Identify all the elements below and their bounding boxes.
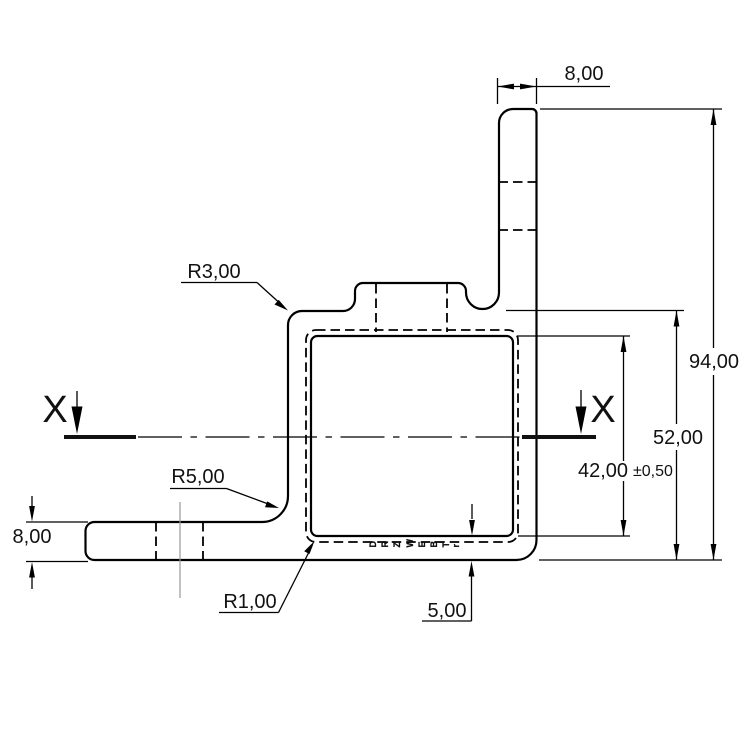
- dimension 5,00 bottom: [422, 504, 475, 622]
- svg-text:X: X: [590, 389, 615, 431]
- svg-text:R: R: [380, 541, 390, 548]
- dimension 94,00 right: [539, 109, 739, 560]
- dimension 52,00 right: [506, 311, 703, 561]
- svg-text:R3,00: R3,00: [187, 261, 240, 283]
- square hole: [311, 336, 513, 536]
- hidden line arm lower: [499, 229, 538, 231]
- svg-text:W: W: [405, 539, 415, 548]
- svg-text:±0,50: ±0,50: [633, 463, 673, 480]
- svg-text:8,00: 8,00: [565, 63, 604, 85]
- svg-text:B: B: [429, 541, 439, 548]
- leader R5,00: [170, 466, 279, 508]
- svg-text:52,00: 52,00: [653, 427, 703, 449]
- hidden line bump left: [375, 284, 377, 332]
- svg-text:T: T: [441, 542, 451, 548]
- leader R1,00: [219, 541, 315, 613]
- marking glyphs on hidden line: [368, 539, 461, 548]
- svg-text:Z: Z: [392, 542, 402, 548]
- svg-text:5,00: 5,00: [428, 600, 467, 622]
- hidden line foot left: [155, 522, 157, 560]
- dimension 8,00 top: [498, 63, 611, 104]
- section line right: [522, 435, 596, 439]
- hidden line arm upper: [499, 181, 538, 183]
- hidden line foot right: [202, 522, 204, 560]
- svg-text:R5,00: R5,00: [171, 466, 224, 488]
- svg-text:8,00: 8,00: [13, 526, 52, 548]
- svg-text:94,00: 94,00: [689, 351, 739, 373]
- section arrow left: [72, 391, 83, 434]
- section line left: [64, 435, 136, 439]
- svg-text:D: D: [368, 541, 378, 548]
- profile outline: [86, 109, 537, 560]
- dimension 42,00 ±0,50: [518, 336, 673, 536]
- section arrow right: [576, 390, 587, 434]
- hidden line bump right: [446, 284, 448, 332]
- svg-text:r: r: [451, 544, 461, 548]
- dimension 8,00 left: [13, 496, 88, 589]
- svg-text:E: E: [417, 541, 427, 547]
- svg-text:42,00: 42,00: [578, 460, 628, 482]
- hidden outline (dashed rounded rect): [306, 330, 518, 542]
- leader R3,00: [181, 261, 288, 311]
- center mark foot hole: [179, 502, 181, 598]
- svg-text:R1,00: R1,00: [223, 591, 276, 613]
- center line horizontal: [138, 436, 521, 438]
- svg-text:X: X: [42, 389, 67, 431]
